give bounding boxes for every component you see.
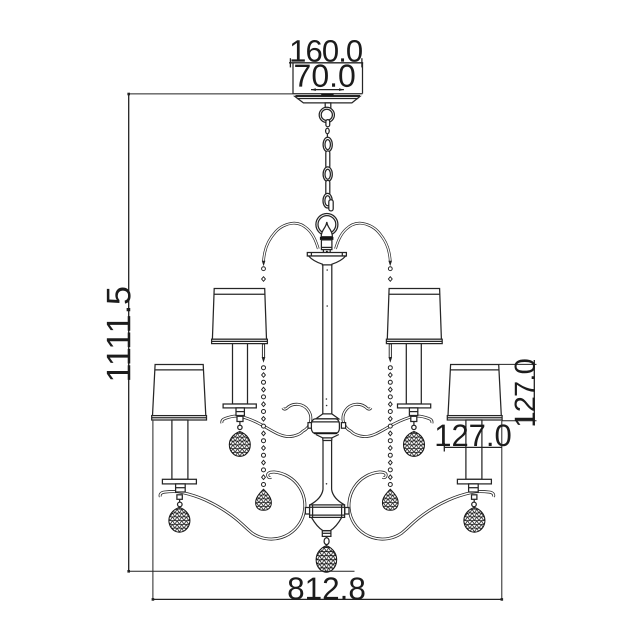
dimension end dots	[152, 598, 155, 601]
dimension 1111.5 vertical line	[127, 93, 354, 573]
extension line left (widest shade edge)	[152, 421, 154, 600]
central crystal ball	[316, 546, 337, 573]
lower hub drum	[310, 505, 345, 518]
extension line bottom (lowest point)	[129, 570, 355, 572]
chain	[323, 120, 333, 211]
extension line shade top	[499, 363, 537, 365]
mid hub tabs	[308, 423, 312, 429]
dimension 127.0 bottom horizontal	[444, 443, 502, 452]
dimension 160.0 line	[289, 58, 363, 67]
canopy box	[293, 63, 363, 96]
lower hub tabs	[305, 508, 309, 515]
hooks + arms + shades left and right (mirrored)	[152, 223, 319, 539]
canopy stem	[325, 103, 331, 110]
canopy ring	[319, 107, 334, 122]
lower hub cap	[322, 531, 331, 537]
mid hub flare bottom	[316, 435, 339, 441]
svg-text:1111.5: 1111.5	[100, 286, 138, 382]
lower hub cone	[312, 517, 342, 530]
dimension 127.0 right vertical	[499, 360, 537, 426]
extension line shade bottom	[502, 420, 537, 422]
dimension overshoot ticks	[533, 360, 535, 364]
svg-text:70.0: 70.0	[294, 58, 356, 94]
extension line right (widest shade edge)	[501, 421, 503, 600]
lower hub taper	[310, 490, 345, 505]
extension line top (canopy level)	[128, 93, 293, 95]
bobeche cone	[309, 256, 346, 265]
mid hub flare top	[316, 414, 339, 419]
upper column	[323, 265, 332, 416]
dimension end dots	[127, 93, 130, 96]
svg-text:127.0: 127.0	[510, 359, 542, 428]
finial flame	[321, 222, 332, 237]
finial band	[320, 237, 334, 240]
bottom link	[324, 536, 329, 544]
dimension 70.0 arrows	[311, 88, 344, 91]
canopy skirt	[295, 96, 360, 103]
bobeche plate	[307, 251, 346, 256]
dimension 812.8 bottom	[152, 421, 504, 601]
svg-text:127.0: 127.0	[434, 418, 512, 453]
lower column	[323, 441, 332, 490]
mid hub barrel	[311, 419, 339, 434]
svg-text:812.8: 812.8	[287, 570, 366, 606]
finial cylinder	[321, 240, 332, 253]
top ring	[316, 214, 338, 236]
